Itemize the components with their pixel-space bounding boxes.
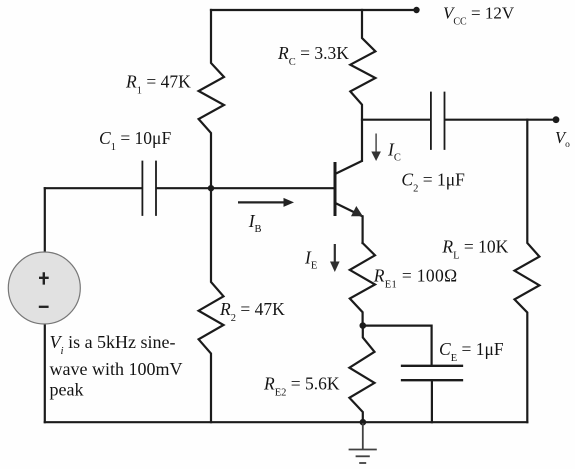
svg-text:R2 = 47K: R2 = 47K [219, 299, 285, 324]
node emitter junction [360, 322, 367, 329]
node base junction [208, 185, 214, 191]
source Vi circle [8, 252, 80, 324]
svg-text:IB: IB [248, 211, 262, 235]
arrow IB [238, 198, 294, 207]
svg-text:IE: IE [304, 248, 317, 272]
svg-text:VCC = 12V: VCC = 12V [443, 3, 515, 27]
arrow IC [371, 134, 381, 162]
svg-text:Vi is a 5kHz sine-: Vi is a 5kHz sine- [50, 332, 176, 357]
wire CE to bottom rail [431, 381, 433, 422]
wire C1 to base [157, 187, 334, 189]
svg-text:RE2 = 5.6K: RE2 = 5.6K [263, 374, 340, 399]
resistor RE2 [349, 326, 374, 423]
terminal Vo dot [553, 116, 560, 123]
wire C2 to Vo [445, 119, 556, 121]
wire emitter node to CE [363, 326, 432, 365]
source minus sign [39, 306, 49, 308]
node bottom junction [360, 419, 367, 426]
svg-text:RC = 3.3K: RC = 3.3K [277, 43, 349, 68]
svg-text:RE1 = 100Ω: RE1 = 100Ω [373, 265, 458, 290]
svg-text:wave with 100mV: wave with 100mV [50, 359, 183, 379]
resistor R1 [199, 10, 224, 188]
wire collector to C2 [362, 119, 430, 121]
transistor Q1 [335, 161, 363, 217]
capacitor C2 [431, 93, 445, 150]
svg-text:peak: peak [50, 379, 84, 399]
wire left branch lower [44, 324, 46, 422]
ground [349, 423, 377, 463]
svg-text:C2 = 1μF: C2 = 1μF [401, 170, 465, 195]
wire bottom rail [45, 421, 528, 423]
wire left branch upper [44, 188, 46, 252]
resistor RC [350, 10, 375, 161]
resistor RL [515, 120, 540, 423]
wire input to C1 [45, 187, 142, 189]
resistor RE1 [350, 243, 375, 326]
arrow IE [330, 244, 340, 272]
svg-text:R1 = 47K: R1 = 47K [125, 72, 191, 97]
wire top supply rail [211, 9, 417, 11]
source plus sign [39, 272, 49, 284]
svg-text:Vo: Vo [555, 128, 570, 150]
resistor R2 [199, 188, 224, 422]
svg-text:CE = 1μF: CE = 1μF [439, 339, 504, 364]
capacitor CE [402, 366, 462, 380]
terminal Vcc dot [413, 7, 419, 13]
capacitor C1 [142, 162, 156, 216]
svg-text:IC: IC [387, 140, 401, 164]
svg-text:RL = 10K: RL = 10K [441, 236, 508, 261]
svg-text:C1 = 10μF: C1 = 10μF [99, 128, 171, 153]
wire emitter vertical [362, 216, 364, 243]
